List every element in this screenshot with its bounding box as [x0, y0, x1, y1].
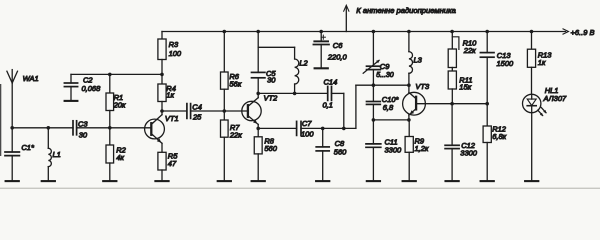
capacitor C7	[297, 119, 315, 139]
junction L1 tap	[47, 126, 51, 130]
svg-text:L1: L1	[53, 150, 61, 159]
capacitor C1	[5, 128, 35, 156]
inductor L1	[48, 128, 61, 167]
wire emitter to C7	[258, 127, 296, 129]
resistor R2	[106, 128, 127, 163]
wire C14 output	[332, 93, 344, 128]
junction C14 tap	[342, 127, 346, 131]
resistor R5	[158, 151, 178, 170]
svg-text:3300: 3300	[460, 149, 478, 158]
wire C5 to VT2 collector	[257, 78, 259, 94]
ground below R12	[481, 143, 494, 182]
svg-text:1к: 1к	[166, 90, 174, 99]
junction rail R10	[450, 30, 454, 34]
junction L2 bottom	[293, 92, 297, 96]
resistor R3	[158, 32, 182, 75]
svg-text:1,2к: 1,2к	[415, 144, 429, 153]
svg-text:0,1: 0,1	[323, 100, 333, 109]
capacitor C14	[323, 77, 338, 109]
transistor VT3	[403, 82, 430, 120]
junction rail C5 column	[256, 30, 260, 34]
junction VT2 collector node	[256, 92, 260, 96]
svg-text:47: 47	[168, 159, 177, 168]
resistor R4	[158, 74, 176, 111]
ground below L1	[42, 167, 55, 182]
capacitor C5	[252, 69, 277, 85]
junction C11 top	[372, 118, 376, 122]
capacitor C8	[316, 128, 347, 156]
svg-text:АЛ307: АЛ307	[543, 94, 567, 103]
ground below R8	[252, 154, 265, 181]
svg-text:6,8: 6,8	[383, 103, 394, 112]
svg-text:22к: 22к	[229, 131, 242, 140]
node supply arrow to receiver antenna	[344, 5, 456, 31]
junction rail R13	[530, 30, 534, 34]
capacitor C3	[73, 119, 88, 139]
resistor R9	[405, 120, 429, 153]
junction R1 top	[108, 73, 112, 77]
svg-text:C7: C7	[302, 119, 312, 128]
svg-text:L2: L2	[299, 58, 308, 67]
ground below R2	[103, 163, 116, 181]
svg-text:+6..9 В: +6..9 В	[571, 28, 595, 37]
svg-text:6,8к: 6,8к	[492, 132, 506, 141]
junction rail R6	[223, 30, 227, 34]
capacitor C10	[367, 85, 400, 120]
svg-text:3300: 3300	[385, 145, 403, 154]
scan edge left	[0, 84, 1, 156]
junction R6-R7 node	[223, 109, 227, 113]
inductor L3	[409, 32, 423, 86]
svg-text:22к: 22к	[463, 46, 476, 55]
resistor R10	[448, 32, 477, 68]
junction C10 top	[372, 83, 376, 87]
capacitor C6	[313, 32, 347, 62]
transistor VT1	[145, 111, 179, 152]
wire antenna node to C3	[12, 127, 73, 129]
scan edge bottom	[0, 188, 600, 189]
svg-text:30: 30	[267, 76, 276, 85]
capacitor C2	[64, 74, 101, 93]
ground below HL1	[525, 113, 538, 181]
resistor R7	[221, 111, 243, 140]
wire to VT2 base	[224, 110, 248, 112]
junction VT1 collector node	[160, 109, 164, 113]
junction C13-R12 node	[485, 102, 489, 106]
svg-text:220,0: 220,0	[327, 52, 348, 61]
ground below C1	[6, 156, 19, 182]
svg-text:WA1: WA1	[23, 74, 39, 83]
resistor R8	[254, 128, 277, 154]
wire top supply rail +6..9V	[162, 28, 594, 37]
wire C2 to R3-R4 junction	[71, 73, 162, 75]
svg-text:20к: 20к	[113, 101, 126, 110]
junction antenna node	[10, 126, 14, 130]
junction rail C9	[372, 30, 376, 34]
ground below C8	[316, 151, 329, 181]
capacitor C4	[162, 102, 224, 121]
resistor R13	[527, 32, 552, 95]
capacitor C9 trimmer	[363, 32, 394, 86]
ground below R9	[403, 152, 416, 181]
resistor R12	[483, 104, 507, 143]
svg-text:VT3: VT3	[415, 82, 430, 91]
wire up to mixer node	[356, 85, 409, 128]
junction VT3 collector node	[407, 83, 411, 87]
svg-text:VT2: VT2	[264, 93, 279, 102]
svg-text:C3: C3	[78, 119, 88, 128]
resistor R1	[106, 74, 126, 127]
svg-text:5...30: 5...30	[376, 72, 394, 79]
svg-text:30: 30	[79, 130, 88, 139]
capacitor C13	[480, 32, 514, 104]
svg-text:VT1: VT1	[165, 114, 179, 123]
LED HL1	[523, 86, 567, 116]
svg-text:C1*: C1*	[21, 143, 35, 152]
wire antenna lead	[11, 83, 13, 128]
junction R11-C12 node	[450, 102, 454, 106]
svg-text:100: 100	[169, 49, 182, 58]
svg-text:100: 100	[301, 129, 314, 138]
svg-text:C6: C6	[333, 41, 343, 50]
svg-text:R3: R3	[169, 40, 179, 49]
ground below C6	[315, 45, 328, 69]
svg-text:C9: C9	[380, 62, 390, 71]
svg-text:56к: 56к	[229, 80, 241, 89]
inductor L2	[295, 47, 309, 93]
wire tank bottom line	[258, 92, 328, 94]
wire emitter link line	[373, 119, 409, 121]
resistor R6	[221, 32, 242, 112]
svg-text:560: 560	[334, 147, 347, 156]
junction rail C13	[485, 30, 489, 34]
svg-text:К антенне радиоприемника: К антенне радиоприемника	[356, 6, 456, 15]
junction rail C6	[319, 30, 323, 34]
antenna WA1	[7, 70, 39, 83]
transistor VT2	[242, 93, 278, 128]
resistor R11	[448, 68, 472, 104]
svg-text:L3: L3	[414, 56, 423, 65]
junction VT2 emitter node	[256, 127, 260, 131]
svg-text:15к: 15к	[459, 83, 471, 92]
ground below R7	[218, 137, 231, 181]
ground below C11	[367, 147, 380, 181]
junction C8 tap	[321, 127, 325, 131]
capacitor C12	[445, 104, 478, 158]
ground below C12	[446, 149, 459, 182]
capacitor C11	[366, 120, 402, 154]
wire C3 to VT1 base	[77, 127, 152, 129]
wire C7 output	[301, 127, 356, 129]
wire rail to C5	[257, 32, 259, 73]
svg-text:C4: C4	[192, 102, 202, 111]
svg-text:560: 560	[264, 144, 277, 153]
ground below C2	[65, 87, 78, 101]
svg-text:25: 25	[192, 112, 202, 121]
svg-text:1к: 1к	[538, 58, 546, 67]
junction VT3 emitter node	[407, 118, 411, 122]
svg-text:4к: 4к	[116, 153, 124, 162]
junction R3-R4 node	[160, 73, 164, 77]
junction R1-R2 base node	[108, 126, 112, 130]
wire VT3 base line	[416, 103, 487, 105]
svg-text:C14: C14	[324, 77, 338, 86]
ground below R5	[155, 170, 168, 181]
junction rail L3	[407, 30, 411, 34]
wire L2 top	[258, 46, 294, 48]
svg-text:0,068: 0,068	[82, 84, 102, 93]
svg-text:1500: 1500	[497, 59, 515, 68]
